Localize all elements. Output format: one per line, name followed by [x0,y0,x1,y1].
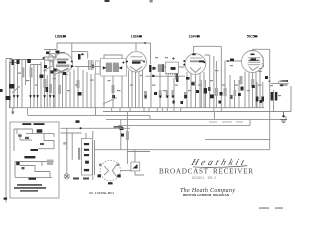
drawing number marks [259,207,269,208]
tube V2 12BA6 [126,52,146,108]
capacitor C1 [9,84,15,89]
resistor R15 [126,131,129,140]
B minus label marks [280,80,287,82]
wire verticals under IFT1 [83,70,95,108]
volume control [191,82,196,87]
svg-text:NO. 2 MODEL BR-2: NO. 2 MODEL BR-2 [89,191,115,195]
resistor R12 [215,88,218,96]
filter capacitor C9 [275,92,278,101]
svg-text:50C5: 50C5 [247,34,255,38]
screen bypass V4 [251,79,254,87]
grid wire to V4 [225,60,242,62]
B+ top wire [57,43,151,64]
capacitor C2 [6,96,11,100]
interlock wiring [15,162,54,178]
resistor R2 [30,68,33,78]
loop antenna [6,59,12,203]
svg-text:12BE6: 12BE6 [55,34,65,38]
resistor R13 [224,88,227,96]
bus line y139 [205,138,270,140]
detector box [163,62,185,108]
speaker [98,160,133,184]
label 117V [114,126,123,128]
resistor R8 [166,90,169,98]
screen resistor mark [91,65,94,69]
resistor R7 [159,90,162,98]
capacitor C3 [40,75,44,79]
coupling capacitor C13 [176,76,178,82]
wire verticals right of V3 [201,46,225,111]
capacitor C6 [210,95,214,99]
detector load wire [146,75,186,77]
chassis ground left [12,108,14,112]
wire verticals tuning section [10,57,54,108]
capacitor C4 [46,87,49,92]
bus line y125 [118,119,250,125]
tube V3 12AV6 [183,46,221,111]
tube V1 12BE6 [44,52,101,107]
capacitor C12 [261,97,264,102]
osc coil marks [46,52,50,55]
pin curls V4 [259,56,264,69]
component value labels [18,57,281,96]
bus component ticks [173,101,175,104]
IF transformer T2 [149,64,164,108]
switch wires [61,128,151,160]
plate junction dot [269,80,271,82]
top page mark [105,0,110,2]
tube V4 50C5 [240,49,289,107]
cathode resistor marks [186,77,190,80]
capacitor C5 [78,92,82,96]
heater return bus [106,116,286,119]
trimmer caps top [17,60,20,65]
plus mark [172,57,174,59]
heater dashes [209,121,243,123]
filter capacitor C8 [271,92,274,101]
resistor R5 [58,85,61,94]
slant wire [12,86,20,93]
cathode resistor V4 [240,76,243,85]
resistor R10 [184,92,187,99]
AVC line marks [154,92,157,95]
top cap blob V1 [56,51,60,54]
antenna terminal mark [0,89,3,92]
wire verticals output [257,82,274,112]
IF transformer T1 [101,55,127,108]
AVC bus [28,108,150,120]
resistor R17 [77,80,80,88]
resistor R11 [204,88,207,94]
plate feedback wire [269,49,271,149]
osc grid marks [44,65,47,68]
switch wiring [14,129,54,151]
label C7 [18,134,21,136]
resistor R14 [280,83,288,86]
resistor R16 [112,85,115,93]
inset title [22,123,31,125]
inset box [10,122,59,198]
heater bus [9,107,264,109]
selenium rectifier [131,150,144,175]
svg-text:MODEL BR-2: MODEL BR-2 [192,176,216,180]
resistor R3 [43,79,46,88]
resistor R6 [144,91,147,99]
plate capacitor [78,54,81,60]
wire tuning rail [10,57,57,65]
B minus bus [103,86,291,112]
antenna bottom tap [4,198,8,200]
capacitor C10 [120,127,124,130]
tuning capacitor arrows [13,95,56,98]
svg-text:BROADCAST RECEIVER: BROADCAST RECEIVER [159,168,253,176]
coil L1 [12,60,14,65]
chassis ground right [282,115,284,117]
power switch [63,142,67,145]
output loop wire [95,149,270,151]
title Heathkit [189,157,246,167]
pilot lamp [64,128,69,179]
capacitor C7 [230,59,234,62]
dropper wires [121,112,128,164]
dial label [24,156,35,158]
inset caption [17,184,42,186]
resistor R4 [49,84,52,93]
bus junction ticks [112,108,215,120]
resistor R1 [21,68,24,78]
resistor R9 [172,90,175,98]
output transformer [78,131,95,180]
speaker leads labels [73,178,79,180]
page number mark [150,0,153,2]
junction dot [144,42,146,44]
svg-text:BENTON HARBOR, MICHIGAN: BENTON HARBOR, MICHIGAN [183,193,230,197]
capacitor C11 [256,97,259,102]
svg-text:12AV6: 12AV6 [189,34,199,38]
